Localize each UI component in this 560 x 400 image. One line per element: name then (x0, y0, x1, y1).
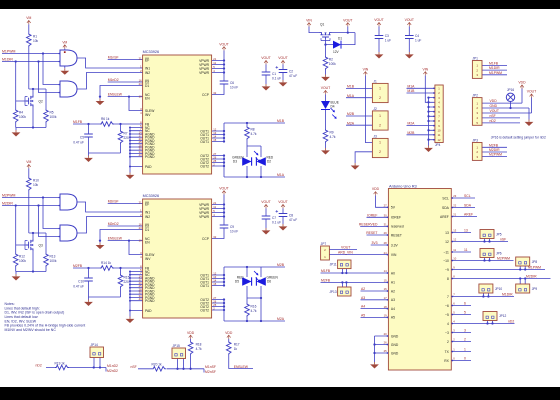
svg-text:nD2: nD2 (490, 119, 496, 123)
svg-text:M2FB: M2FB (73, 264, 83, 268)
svg-text:27: 27 (384, 204, 387, 208)
svg-text:R9: R9 (330, 131, 334, 135)
svg-text:VOUT: VOUT (219, 42, 228, 46)
svg-text:nSF: nSF (131, 365, 137, 369)
svg-text:VDD: VDD (187, 331, 195, 335)
svg-text:3: 3 (464, 329, 466, 333)
svg-text:M1B: M1B (407, 89, 415, 93)
svg-text:100k: 100k (19, 259, 26, 263)
svg-text:JP1: JP1 (472, 56, 478, 60)
svg-text:R4: R4 (19, 111, 23, 115)
svg-text:SCL: SCL (442, 196, 449, 200)
svg-text:6: 6 (464, 302, 466, 306)
svg-text:30: 30 (384, 214, 387, 218)
svg-text:26: 26 (213, 299, 216, 303)
svg-text:M1nSF: M1nSF (108, 55, 119, 59)
svg-text:JP15: JP15 (173, 344, 180, 348)
svg-text:11: 11 (213, 205, 216, 209)
svg-text:R1: R1 (33, 35, 37, 39)
svg-text:R6 1k: R6 1k (101, 117, 110, 121)
svg-text:M1DIR: M1DIR (2, 58, 13, 62)
svg-text:M2DIR: M2DIR (526, 275, 537, 279)
svg-text:1: 1 (464, 348, 466, 352)
svg-text:M2nSF: M2nSF (205, 370, 216, 374)
svg-text:C4: C4 (415, 34, 419, 38)
svg-text:27: 27 (213, 296, 216, 300)
svg-text:28: 28 (384, 241, 387, 245)
svg-text:VOUT: VOUT (261, 56, 270, 60)
svg-text:AREF: AREF (440, 215, 449, 219)
svg-text:12: 12 (445, 240, 449, 244)
svg-text:10: 10 (139, 238, 142, 242)
svg-text:R5: R5 (50, 111, 54, 115)
svg-text:0.1 uF: 0.1 uF (272, 76, 281, 80)
svg-text:~11: ~11 (443, 250, 449, 254)
svg-text:SDA: SDA (464, 204, 472, 208)
svg-text:8: 8 (447, 277, 449, 281)
svg-text:EN: EN (145, 240, 150, 244)
svg-text:1 uF: 1 uF (385, 39, 391, 43)
svg-text:IOREF: IOREF (367, 213, 377, 217)
svg-text:Q1: Q1 (320, 23, 324, 27)
svg-text:M2A: M2A (347, 121, 355, 125)
svg-text:10k: 10k (33, 39, 39, 43)
svg-text:10 nF: 10 nF (230, 229, 238, 233)
svg-text:12: 12 (213, 127, 216, 131)
svg-text:31: 31 (384, 223, 387, 227)
svg-text:100k: 100k (329, 62, 336, 66)
svg-text:RESERVED: RESERVED (359, 223, 378, 227)
svg-text:15: 15 (213, 282, 216, 286)
svg-text:D2: D2 (267, 160, 271, 164)
svg-text:reserved: reserved (391, 225, 404, 229)
svg-text:A3: A3 (391, 298, 395, 302)
svg-text:~9: ~9 (445, 268, 449, 272)
svg-text:GND: GND (391, 334, 399, 338)
svg-text:VDD: VDD (372, 187, 380, 191)
svg-text:1k: 1k (234, 347, 238, 351)
svg-text:AREF: AREF (464, 213, 473, 217)
svg-text:0.47 uF: 0.47 uF (73, 285, 84, 289)
svg-text:R17: R17 (234, 342, 240, 346)
svg-text:5: 5 (464, 311, 466, 315)
svg-text:JP9: JP9 (532, 287, 538, 291)
svg-text:D3: D3 (233, 160, 237, 164)
svg-text:EF: EF (145, 58, 149, 62)
svg-text:ENSLEW: ENSLEW (108, 93, 123, 97)
svg-text:INV: INV (145, 257, 151, 261)
svg-text:M2PWM: M2PWM (489, 153, 502, 157)
svg-text:RX: RX (444, 359, 449, 363)
svg-text:32: 32 (213, 235, 216, 239)
svg-text:M1nD2: M1nD2 (108, 78, 119, 82)
svg-text:19: 19 (384, 314, 387, 318)
svg-text:M2nSF: M2nSF (108, 199, 119, 203)
svg-text:ARD_VIN: ARD_VIN (338, 251, 353, 255)
svg-text:25: 25 (384, 349, 387, 353)
svg-text:M2nD2: M2nD2 (108, 222, 119, 226)
svg-text:A5: A5 (391, 316, 395, 320)
svg-text:13: 13 (213, 131, 216, 135)
svg-text:M2DIR: M2DIR (2, 202, 13, 206)
svg-text:14: 14 (384, 269, 387, 273)
svg-text:VOUT: VOUT (278, 56, 287, 60)
svg-text:43: 43 (139, 153, 142, 157)
svg-text:13: 13 (453, 229, 456, 233)
svg-text:VOUT: VOUT (343, 18, 352, 22)
svg-text:A2: A2 (361, 287, 365, 291)
svg-text:nD2: nD2 (36, 364, 42, 368)
svg-text:M2B: M2B (347, 112, 355, 116)
svg-text:16: 16 (384, 287, 387, 291)
svg-text:2: 2 (379, 150, 381, 154)
svg-text:VDD: VDD (225, 331, 233, 335)
svg-text:26: 26 (384, 341, 387, 345)
svg-text:PAD: PAD (145, 165, 152, 169)
svg-text:21: 21 (139, 56, 142, 60)
svg-text:JP16: JP16 (507, 88, 514, 92)
svg-text:M1A: M1A (347, 94, 355, 98)
svg-text:~5: ~5 (445, 313, 449, 317)
svg-text:M1FB: M1FB (489, 62, 499, 66)
svg-text:VOUT: VOUT (527, 90, 536, 94)
svg-text:PAD: PAD (145, 309, 152, 313)
svg-text:M1PWM: M1PWM (489, 71, 502, 75)
svg-text:JP12: JP12 (499, 314, 506, 318)
svg-text:15: 15 (213, 138, 216, 142)
svg-text:R7: R7 (124, 132, 128, 136)
svg-text:47 uF: 47 uF (289, 218, 297, 222)
svg-text:nD2: nD2 (508, 320, 514, 324)
svg-text:10: 10 (139, 94, 142, 98)
svg-text:100k: 100k (50, 259, 57, 263)
svg-text:7: 7 (447, 295, 449, 299)
svg-text:INV: INV (145, 113, 151, 117)
svg-text:~3: ~3 (445, 331, 449, 335)
svg-text:A4: A4 (361, 305, 365, 309)
svg-text:ENSLEW: ENSLEW (234, 365, 249, 369)
svg-text:R15: R15 (124, 276, 130, 280)
svg-text:M1PWM: M1PWM (2, 50, 16, 54)
svg-text:2: 2 (447, 340, 449, 344)
svg-text:nSF: nSF (500, 238, 506, 242)
svg-text:IOREF: IOREF (391, 216, 401, 220)
svg-text:16: 16 (139, 78, 142, 82)
svg-text:A1: A1 (391, 281, 395, 285)
svg-text:GND: GND (391, 343, 399, 347)
svg-text:C1: C1 (272, 72, 276, 76)
svg-text:47 uF: 47 uF (289, 74, 297, 78)
svg-text:VPWR: VPWR (199, 71, 210, 75)
svg-text:25: 25 (213, 159, 216, 163)
svg-text:23: 23 (139, 226, 142, 230)
svg-text:M2B: M2B (407, 131, 415, 135)
svg-text:4: 4 (447, 322, 449, 326)
svg-text:43: 43 (139, 297, 142, 301)
svg-text:M2FB: M2FB (321, 279, 331, 283)
svg-text:M2FB: M2FB (489, 143, 499, 147)
svg-text:R8: R8 (251, 128, 255, 132)
svg-text:JP14: JP14 (91, 343, 98, 347)
svg-text:Q2: Q2 (39, 100, 43, 104)
svg-text:PGND: PGND (145, 299, 155, 303)
svg-text:OUT2: OUT2 (200, 164, 209, 168)
svg-text:VM: VM (26, 16, 31, 20)
svg-text:GND: GND (490, 104, 498, 108)
svg-text:D5: D5 (235, 280, 239, 284)
svg-text:C10: C10 (78, 280, 84, 284)
svg-text:IN2: IN2 (145, 215, 150, 219)
svg-text:1: 1 (379, 141, 381, 145)
svg-text:VDD: VDD (490, 99, 498, 103)
svg-text:C5: C5 (80, 136, 84, 140)
svg-text:CCP: CCP (202, 237, 210, 241)
svg-text:M2DIR: M2DIR (489, 148, 500, 152)
svg-text:100k: 100k (50, 115, 57, 119)
svg-text:VM: VM (62, 41, 67, 45)
svg-text:VOUT: VOUT (219, 186, 228, 190)
svg-text:JP8: JP8 (532, 260, 538, 264)
svg-text:27: 27 (213, 152, 216, 156)
svg-text:SDA: SDA (442, 206, 450, 210)
svg-text:12: 12 (213, 271, 216, 275)
svg-text:1: 1 (379, 114, 381, 118)
svg-text:JP7: JP7 (321, 242, 327, 246)
svg-text:12V: 12V (333, 50, 340, 54)
svg-text:10: 10 (453, 257, 456, 261)
svg-text:26: 26 (213, 155, 216, 159)
svg-text:VDD: VDD (518, 81, 526, 85)
svg-text:A3: A3 (361, 296, 365, 300)
svg-text:R19 1k: R19 1k (55, 361, 66, 365)
svg-text:JP4: JP4 (435, 143, 441, 147)
svg-text:J1: J1 (373, 80, 377, 84)
svg-text:4.7k: 4.7k (330, 135, 336, 139)
svg-text:29: 29 (384, 231, 387, 235)
svg-text:D1: D1 (145, 84, 149, 88)
svg-text:JP2: JP2 (472, 93, 478, 97)
svg-text:EN: EN (145, 96, 150, 100)
svg-text:VIN: VIN (422, 67, 428, 71)
svg-text:ENSLEW: ENSLEW (108, 237, 123, 241)
svg-text:14: 14 (213, 134, 216, 138)
svg-text:CCP: CCP (202, 93, 210, 97)
svg-text:M2PWM: M2PWM (497, 257, 510, 261)
svg-text:2: 2 (379, 123, 381, 127)
svg-text:20: 20 (384, 332, 387, 336)
svg-text:GND: GND (391, 351, 399, 355)
svg-text:VOUT: VOUT (261, 200, 270, 204)
svg-text:IN1: IN1 (145, 66, 150, 70)
svg-text:M2A: M2A (277, 317, 285, 321)
svg-text:RESET: RESET (391, 233, 402, 237)
svg-text:RESET: RESET (366, 231, 377, 235)
svg-text:M1nSF: M1nSF (205, 365, 216, 369)
svg-text:EF: EF (145, 202, 149, 206)
svg-text:M1B: M1B (277, 119, 285, 123)
svg-text:R13: R13 (50, 255, 56, 259)
svg-text:R10: R10 (33, 179, 39, 183)
svg-text:2: 2 (464, 338, 466, 342)
svg-text:4.7k: 4.7k (196, 347, 202, 351)
svg-text:14: 14 (213, 278, 216, 282)
svg-text:32: 32 (213, 91, 216, 95)
svg-text:10k: 10k (33, 183, 39, 187)
svg-text:1 uF: 1 uF (415, 39, 421, 43)
svg-text:0.47 uF: 0.47 uF (73, 141, 84, 145)
svg-text:R2: R2 (329, 58, 333, 62)
svg-text:M1PWM: M1PWM (528, 266, 541, 270)
svg-text:3V3: 3V3 (371, 241, 377, 245)
svg-text:17: 17 (384, 296, 387, 300)
svg-text:4.7k: 4.7k (251, 132, 257, 136)
svg-text:VOUT: VOUT (341, 246, 350, 250)
svg-text:21: 21 (213, 57, 216, 61)
svg-text:VPWR: VPWR (199, 215, 210, 219)
svg-text:10 nF: 10 nF (230, 85, 238, 89)
svg-text:C7: C7 (272, 216, 276, 220)
svg-text:VIN: VIN (306, 18, 312, 22)
svg-text:2: 2 (379, 96, 381, 100)
svg-text:25: 25 (213, 303, 216, 307)
svg-text:VIN: VIN (363, 67, 369, 71)
svg-text:220: 220 (124, 280, 130, 284)
svg-text:D1: D1 (145, 228, 149, 232)
svg-text:11: 11 (464, 248, 468, 252)
svg-text:M2A: M2A (407, 122, 415, 126)
svg-text:A4: A4 (391, 307, 395, 311)
svg-text:VOUT: VOUT (278, 200, 287, 204)
svg-text:D6: D6 (267, 280, 271, 284)
svg-text:11: 11 (438, 133, 441, 137)
svg-text:13: 13 (445, 231, 449, 235)
svg-text:18: 18 (384, 305, 387, 309)
svg-text:VOUT: VOUT (321, 86, 330, 90)
svg-text:J3: J3 (373, 135, 377, 139)
svg-text:MC33926: MC33926 (143, 50, 159, 54)
svg-text:IN2: IN2 (145, 71, 150, 75)
svg-text:C9: C9 (230, 225, 234, 229)
svg-text:R12: R12 (19, 255, 25, 259)
svg-text:JP3: JP3 (472, 138, 478, 142)
svg-text:VOUT: VOUT (490, 109, 499, 113)
svg-text:1: 1 (379, 87, 381, 91)
svg-text:R14 1k: R14 1k (101, 261, 112, 265)
svg-text:21: 21 (213, 201, 216, 205)
svg-text:0.1 uF: 0.1 uF (272, 220, 281, 224)
svg-text:OUT1: OUT1 (200, 284, 209, 288)
svg-text:JP6: JP6 (496, 252, 502, 256)
svg-text:~10: ~10 (443, 259, 449, 263)
svg-text:M2B: M2B (277, 263, 285, 267)
svg-text:M1INV and M2INV should be NC: M1INV and M2INV should be NC (5, 328, 57, 332)
svg-text:D4: D4 (331, 105, 335, 109)
svg-text:C2: C2 (289, 69, 293, 73)
svg-text:21: 21 (453, 213, 456, 217)
svg-text:PGND: PGND (145, 155, 155, 159)
svg-text:M1B: M1B (347, 85, 355, 89)
svg-text:220: 220 (124, 136, 130, 140)
svg-text:JP10: JP10 (495, 287, 502, 291)
svg-text:11: 11 (453, 248, 456, 252)
svg-text:nSF: nSF (490, 114, 496, 118)
svg-text:VOUT: VOUT (374, 18, 383, 22)
svg-text:M1FB: M1FB (321, 269, 331, 273)
svg-text:M1DIR: M1DIR (489, 66, 500, 70)
svg-text:A2: A2 (391, 289, 395, 293)
svg-text:13: 13 (213, 275, 216, 279)
svg-text:JP13: JP13 (329, 290, 336, 294)
svg-text:VM: VM (26, 160, 31, 164)
svg-text:M1A: M1A (407, 84, 415, 88)
svg-text:IN1: IN1 (145, 210, 150, 214)
svg-text:11: 11 (213, 61, 216, 65)
svg-text:R20 1k: R20 1k (152, 363, 163, 367)
svg-text:C3: C3 (385, 34, 389, 38)
svg-text:12: 12 (438, 138, 441, 142)
svg-text:MC33926: MC33926 (143, 194, 159, 198)
svg-text:VOUT: VOUT (405, 18, 414, 22)
svg-text:0: 0 (464, 357, 466, 361)
svg-text:A5: A5 (361, 314, 365, 318)
svg-text:3.3V: 3.3V (391, 243, 399, 247)
svg-text:22: 22 (453, 204, 456, 208)
svg-text:M1nD2: M1nD2 (107, 364, 118, 368)
svg-text:Arduino Uno R3: Arduino Uno R3 (389, 183, 417, 188)
svg-text:24: 24 (384, 251, 387, 255)
svg-text:100k: 100k (19, 115, 26, 119)
svg-text:M1DIR: M1DIR (502, 293, 513, 297)
svg-text:JP11: JP11 (330, 262, 337, 266)
svg-text:OUT2: OUT2 (200, 308, 209, 312)
svg-text:SCL: SCL (464, 194, 471, 198)
svg-text:M2PWM: M2PWM (2, 194, 16, 198)
svg-text:R16: R16 (251, 305, 257, 309)
svg-text:M1A: M1A (277, 173, 285, 177)
svg-text:12: 12 (453, 238, 456, 242)
svg-text:VIN: VIN (391, 253, 397, 257)
svg-text:16: 16 (139, 222, 142, 226)
svg-text:C8: C8 (289, 213, 293, 217)
svg-text:OUT1: OUT1 (200, 140, 209, 144)
svg-text:15: 15 (384, 279, 387, 283)
svg-text:JP5: JP5 (496, 233, 502, 237)
svg-text:M1FB: M1FB (73, 120, 83, 124)
svg-text:JP16 is default setting jumper: JP16 is default setting jumper for nD2 (491, 135, 546, 139)
svg-text:Q3: Q3 (39, 244, 43, 248)
svg-text:23: 23 (139, 82, 142, 86)
svg-text:10: 10 (438, 129, 441, 133)
svg-text:C6: C6 (230, 81, 234, 85)
svg-text:13: 13 (464, 229, 468, 233)
svg-text:D1: D1 (338, 36, 342, 40)
svg-text:J2: J2 (373, 107, 377, 111)
svg-text:R18: R18 (196, 342, 202, 346)
svg-text:21: 21 (139, 200, 142, 204)
svg-text:4.7k: 4.7k (251, 309, 257, 313)
svg-text:M2nD2: M2nD2 (107, 369, 118, 373)
svg-text:23: 23 (453, 194, 456, 198)
svg-text:A0: A0 (391, 271, 395, 275)
svg-text:~6: ~6 (445, 304, 449, 308)
